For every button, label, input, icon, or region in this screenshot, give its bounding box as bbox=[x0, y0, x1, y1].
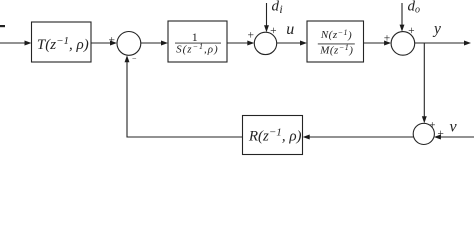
svg-text:+: + bbox=[429, 120, 436, 132]
svg-text:u: u bbox=[286, 21, 294, 38]
svg-text:+: + bbox=[408, 25, 415, 37]
svg-text:−: − bbox=[132, 55, 137, 64]
svg-text:M(z−1): M(z−1) bbox=[319, 43, 353, 57]
svg-text:+: + bbox=[248, 30, 255, 42]
svg-text:di: di bbox=[272, 0, 283, 16]
svg-text:N(z−1): N(z−1) bbox=[320, 28, 352, 42]
svg-text:+: + bbox=[384, 33, 391, 45]
svg-text:y: y bbox=[432, 21, 441, 38]
svg-text:+: + bbox=[108, 34, 115, 46]
svg-text:+: + bbox=[270, 25, 277, 37]
svg-text:+: + bbox=[437, 128, 444, 140]
svg-text:v: v bbox=[450, 119, 458, 136]
